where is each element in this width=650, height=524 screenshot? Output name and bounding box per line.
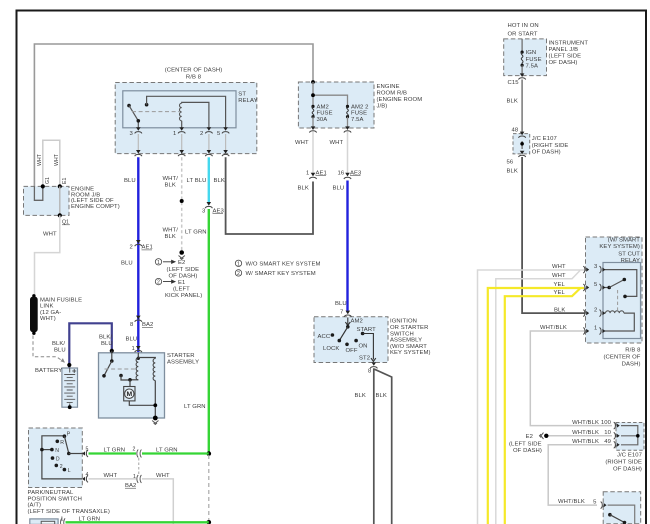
ST CUT pin 5 (583, 282, 605, 291)
svg-text:1: 1 (306, 170, 309, 176)
ST relay pin 5 (217, 127, 229, 137)
J/C pin 10 (572, 430, 620, 439)
svg-text:KEY SYSTEM): KEY SYSTEM) (599, 244, 640, 250)
wire YEL 2 merge (505, 289, 580, 524)
wire LT BLU relay pin2 (208, 157, 210, 204)
wire WHT AM2 down (312, 132, 314, 176)
svg-text:4: 4 (86, 472, 89, 478)
svg-text:(LEFT SIDE: (LEFT SIDE (509, 442, 542, 448)
main fusible link (12 GA-WHT) (30, 294, 82, 335)
svg-text:ENGINE: ENGINE (377, 84, 400, 90)
relay box bottom right (cut off) (603, 492, 641, 524)
svg-text:RELAY: RELAY (621, 258, 640, 264)
starter ground (152, 416, 158, 425)
wire BLK/BLU battery to starter (69, 323, 112, 368)
node E1 (58, 178, 68, 189)
svg-text:SWITCH: SWITCH (390, 331, 414, 337)
svg-text:(ENGINE ROOM: (ENGINE ROOM (377, 97, 423, 103)
svg-text:56: 56 (507, 160, 514, 166)
legend W/O smart key (235, 260, 320, 268)
wire START to ST2 (359, 334, 376, 362)
bottom relay switch (608, 513, 626, 524)
connector 2 AE1 (130, 240, 153, 251)
contact ACC (318, 333, 335, 340)
svg-text:IGN: IGN (526, 50, 537, 56)
J/C E107 top connector (519, 132, 526, 138)
svg-text:BLK: BLK (507, 99, 518, 105)
contact P (63, 432, 71, 439)
svg-text:WHT: WHT (295, 140, 309, 146)
svg-text:MAIN FUSIBLE: MAIN FUSIBLE (40, 298, 82, 304)
svg-text:BLU: BLU (124, 178, 136, 184)
dashed leader fusible link to battery (33, 336, 65, 363)
wire YEL 1 to pin 5 (488, 288, 584, 524)
svg-text:WHT: WHT (43, 232, 57, 238)
svg-text:PANEL J/B: PANEL J/B (549, 47, 579, 53)
J/C pin 100 (572, 420, 620, 429)
svg-text:BLK: BLK (165, 182, 176, 188)
ST relay pin 2 (200, 127, 212, 137)
park/neutral common rail (42, 436, 82, 479)
IGN fuse exit connector C15 (508, 73, 526, 86)
svg-text:D: D (56, 457, 60, 463)
engine room R/B box (298, 82, 422, 128)
svg-text:W/O SMART KEY SYSTEM: W/O SMART KEY SYSTEM (246, 262, 321, 268)
svg-text:ST2: ST2 (359, 356, 370, 362)
transaxle pin 1 connector (61, 516, 66, 524)
svg-text:P: P (67, 432, 71, 438)
svg-text:WHT/: WHT/ (163, 176, 179, 182)
wire WHT loop G1 to E1 (43, 140, 60, 186)
battery (35, 368, 78, 409)
svg-text:1: 1 (173, 131, 176, 137)
fuse IGN 7.5A (521, 39, 542, 76)
svg-text:J/B): J/B) (377, 104, 388, 110)
svg-text:BLU: BLU (121, 261, 133, 267)
ST CUT pin 1 (583, 325, 605, 334)
svg-text:WHT: WHT (37, 153, 43, 166)
svg-text:WHT: WHT (104, 473, 118, 479)
contact 2 (55, 464, 63, 470)
svg-text:WHT/BLK: WHT/BLK (558, 499, 585, 505)
svg-text:ON: ON (359, 343, 368, 349)
svg-text:BLK/: BLK/ (52, 341, 65, 347)
J/C pin 49 (572, 439, 620, 448)
svg-text:OR START: OR START (508, 32, 538, 38)
svg-text:ASSEMBLY: ASSEMBLY (390, 338, 422, 344)
svg-text:LOCK: LOCK (323, 346, 339, 352)
wire inside R/B (313, 82, 348, 106)
svg-text:LT GRN: LT GRN (184, 404, 206, 410)
svg-text:1: 1 (133, 474, 136, 480)
svg-text:WHT/: WHT/ (163, 228, 179, 234)
svg-text:7.5A: 7.5A (526, 64, 539, 70)
svg-text:ACC: ACC (318, 334, 331, 340)
svg-text:G1: G1 (45, 177, 51, 184)
connector 3 AE3 (202, 202, 225, 214)
wire BLK to ST CUT relay pin 2 (522, 157, 585, 313)
svg-text:LT GRN: LT GRN (79, 516, 101, 522)
legend W/ smart key (235, 270, 316, 278)
svg-text:1: 1 (157, 260, 160, 266)
svg-text:1: 1 (61, 516, 64, 522)
contact R (56, 440, 65, 446)
svg-text:LT GRN: LT GRN (156, 448, 178, 454)
svg-text:BLU: BLU (54, 347, 66, 353)
wire WHT Q1 to fusible link (35, 215, 60, 295)
svg-text:WHT/BLK: WHT/BLK (540, 325, 567, 331)
svg-text:BATTERY: BATTERY (35, 368, 62, 374)
svg-text:BLK: BLK (214, 178, 225, 184)
svg-text:OF DASH): OF DASH) (169, 274, 198, 280)
svg-text:W/ SMART KEY SYSTEM: W/ SMART KEY SYSTEM (246, 271, 316, 277)
connector tie dashes BA2 (138, 458, 140, 474)
svg-text:J/C E107: J/C E107 (617, 453, 642, 459)
rail tap to N (42, 449, 52, 451)
svg-text:WHT): WHT) (40, 316, 56, 322)
svg-text:OF DASH): OF DASH) (513, 448, 542, 454)
connector 2 BA2 (133, 447, 142, 458)
svg-text:AM2: AM2 (351, 318, 363, 324)
svg-text:M: M (126, 391, 132, 398)
starter pull-in coil (128, 353, 140, 382)
svg-text:POSITION SWITCH: POSITION SWITCH (28, 496, 83, 502)
wire LT GRN bottom (66, 521, 209, 523)
svg-text:E1: E1 (178, 280, 185, 286)
J/C E107 bottom connector (507, 151, 526, 166)
wire BLK relay pin5 to AE1 (226, 157, 313, 234)
svg-text:2: 2 (200, 131, 203, 137)
svg-text:(W/O SMART: (W/O SMART (390, 344, 427, 350)
svg-text:OF DASH): OF DASH) (549, 60, 578, 66)
starter solenoid switch (102, 349, 136, 380)
contact START (357, 327, 377, 335)
J/C E107 internal node (520, 141, 524, 149)
svg-text:WHT/BLK: WHT/BLK (572, 420, 599, 426)
J/C E107 lower box (605, 423, 644, 473)
node Q1 (58, 213, 70, 225)
note 2 E1 left kick panel (155, 278, 202, 298)
svg-text:BLU: BLU (333, 186, 345, 192)
ignition pin 8 connector (368, 362, 377, 374)
wire dashed option link down (208, 455, 210, 521)
svg-text:(LEFT SIDE: (LEFT SIDE (167, 267, 200, 273)
connector 1 AE1 (306, 170, 327, 179)
wire WHT 1 to pin 3 (478, 270, 585, 524)
ground E2 left side of dash (509, 433, 549, 454)
svg-text:BLK/: BLK/ (99, 335, 112, 341)
park pin 5 connector (82, 447, 88, 457)
wire LT GRN pin5 to connector (89, 452, 137, 454)
svg-text:C15: C15 (508, 80, 520, 86)
svg-text:WHT: WHT (330, 140, 344, 146)
bottom relay internal wire (608, 505, 635, 524)
fuse AM2 30A (311, 104, 332, 128)
svg-text:YEL: YEL (554, 290, 566, 296)
svg-text:5: 5 (86, 447, 89, 453)
park/neutral switch arm (64, 436, 68, 453)
starter motor M (124, 380, 158, 407)
svg-text:LT GRN: LT GRN (104, 448, 126, 454)
wire BLK ignition down A (373, 368, 375, 524)
svg-text:YEL: YEL (554, 282, 566, 288)
svg-text:STARTER: STARTER (167, 353, 195, 359)
transaxle component box bottom (30, 519, 58, 524)
svg-text:(W/ SMART: (W/ SMART (608, 238, 641, 244)
J/C E107 right side of dash top (512, 128, 569, 156)
svg-text:E1: E1 (62, 178, 68, 184)
svg-text:LINK: LINK (40, 304, 54, 310)
svg-text:BLU: BLU (101, 341, 113, 347)
svg-text:7: 7 (340, 310, 343, 316)
svg-text:HOT IN ON: HOT IN ON (508, 23, 539, 29)
J/C E107 internal bus (621, 426, 640, 445)
wire BLU AE3 to ignition AM2 (346, 181, 348, 313)
svg-text:BLU: BLU (335, 301, 347, 307)
wire BLK ignition down B (374, 369, 391, 524)
ST CUT relay box (w/ smart key system) (586, 237, 643, 368)
wire WHT/BLK pin 49 to relay box below (548, 445, 612, 505)
wire WHT pin4 to connector (89, 478, 137, 480)
svg-text:AM2: AM2 (317, 104, 329, 110)
wire WHT/BLK relay pin1 to ground (163, 157, 184, 250)
svg-text:ROOM R/B: ROOM R/B (377, 91, 408, 97)
R/B exit connector AM2 2 (344, 126, 351, 132)
park/neutral position switch box (28, 428, 110, 515)
svg-text:7.5A: 7.5A (351, 117, 364, 123)
fuse AM2 2 7.5A (346, 104, 369, 128)
ground E2/E1 (179, 250, 185, 259)
contact L (63, 468, 71, 474)
svg-text:BLK: BLK (554, 307, 565, 313)
svg-text:(A/T): (A/T) (28, 503, 42, 509)
wire LT GRN to junction (142, 452, 209, 454)
ignition or starter switch assembly box (314, 317, 431, 363)
svg-text:BLU: BLU (126, 337, 138, 343)
svg-text:RELAY: RELAY (238, 98, 257, 104)
contact ON (354, 339, 367, 349)
wire E1 to Q1 (59, 186, 61, 215)
ST CUT pin 3 (583, 264, 605, 273)
svg-text:LT BLU: LT BLU (187, 178, 207, 184)
bottom relay pin 5 (593, 500, 606, 509)
svg-text:(LEFT SIDE: (LEFT SIDE (549, 54, 582, 60)
svg-text:30A: 30A (317, 117, 328, 123)
svg-text:(CENTER OF: (CENTER OF (604, 355, 641, 361)
svg-text:2: 2 (133, 447, 136, 453)
ignition AM2 terminal (345, 318, 363, 329)
engine room J/B box (left side of engine compt) (24, 186, 120, 215)
ST relay pin 3 (130, 127, 142, 137)
ignition switch arm (339, 327, 348, 341)
svg-text:ENGINE COMPT): ENGINE COMPT) (71, 204, 120, 210)
svg-text:2: 2 (237, 271, 240, 277)
wire U inside engine room J/B (34, 186, 42, 200)
ignition pin 7 connector (340, 310, 351, 317)
svg-text:E2: E2 (178, 260, 185, 266)
instrument panel J/B IGN fuse box (504, 23, 589, 76)
svg-text:WHT: WHT (54, 153, 60, 166)
svg-text:R: R (60, 440, 64, 446)
svg-text:AM2 2: AM2 2 (351, 104, 369, 110)
svg-text:1: 1 (132, 346, 135, 352)
wire BLU relay pin3 to starter pin 1 (137, 157, 139, 352)
svg-text:(LEFT: (LEFT (173, 286, 190, 292)
connector 16 AE3 (338, 170, 363, 179)
svg-text:R/B 8: R/B 8 (186, 75, 202, 81)
contact D (51, 456, 60, 462)
svg-text:KICK PANEL): KICK PANEL) (165, 293, 202, 299)
svg-text:INSTRUMENT: INSTRUMENT (549, 41, 589, 47)
relay box exit connectors (135, 150, 142, 156)
svg-text:(RIGHT SIDE: (RIGHT SIDE (605, 460, 642, 466)
contact OFF (345, 343, 358, 354)
svg-text:WHT: WHT (552, 273, 566, 279)
svg-text:(CENTER OF DASH): (CENTER OF DASH) (165, 68, 223, 74)
svg-text:ASSEMBLY: ASSEMBLY (167, 359, 199, 365)
svg-text:LT GRN: LT GRN (185, 230, 207, 236)
svg-text:100: 100 (601, 420, 612, 426)
node G1 (41, 177, 51, 189)
node LT GRN junction (207, 451, 212, 456)
wire BLK C15 to J/C E107 (521, 80, 523, 133)
wire arm to pin 5 (69, 453, 83, 455)
svg-text:R/B 8: R/B 8 (625, 348, 641, 354)
svg-text:(12 GA-: (12 GA- (40, 310, 61, 316)
svg-text:2: 2 (130, 245, 133, 251)
wire WHT/BLK pin 1 to J/C E107 pin 100 (530, 331, 612, 426)
connector 1 BA2 (125, 474, 141, 489)
svg-text:FUSE: FUSE (351, 111, 367, 117)
wire WHT/BLK E2 ground to pin 10 (546, 435, 612, 437)
wire LT GRN down to park/neutral junction (208, 209, 210, 454)
svg-text:2: 2 (157, 280, 160, 286)
svg-text:ST CUT: ST CUT (618, 251, 640, 257)
ST relay pin 1 (173, 127, 185, 137)
svg-text:OR STARTER: OR STARTER (390, 325, 428, 331)
svg-text:IGNITION: IGNITION (390, 319, 417, 325)
svg-text:2: 2 (60, 464, 63, 470)
node R/B feed top (311, 80, 315, 84)
ST CUT pin 2 (583, 308, 605, 317)
svg-text:BLK: BLK (355, 393, 366, 399)
svg-text:J/C E107: J/C E107 (532, 136, 557, 142)
ST relay switch (127, 96, 225, 128)
svg-text:BLK: BLK (165, 234, 176, 240)
relay pigtail wires to dashed box edge (138, 134, 225, 151)
wire WHT feed from frame top to engine room R/B (34, 44, 313, 186)
svg-text:WHT: WHT (156, 473, 170, 479)
svg-text:2: 2 (594, 308, 597, 314)
ST relay coil (180, 102, 209, 127)
ST CUT relay coil (603, 311, 634, 331)
svg-text:OF DASH): OF DASH) (613, 467, 642, 473)
starter hold-in coil (138, 358, 155, 418)
svg-text:FUSE: FUSE (317, 111, 333, 117)
svg-text:OF DASH): OF DASH) (532, 150, 561, 156)
park pin 4 connector (82, 472, 88, 482)
connector 8 BA2 (130, 316, 153, 328)
svg-text:N: N (55, 448, 59, 454)
svg-text:16: 16 (338, 170, 345, 176)
svg-text:BLK: BLK (507, 169, 518, 175)
svg-text:FUSE: FUSE (526, 57, 542, 63)
svg-text:PARK/NEUTRAL: PARK/NEUTRAL (28, 490, 75, 496)
svg-text:WHT: WHT (552, 264, 566, 270)
svg-text:START: START (357, 327, 377, 333)
node bottom green junction (207, 520, 212, 524)
wire WHT 2 merge (496, 271, 580, 524)
R/B exit connector AM2 (309, 126, 316, 132)
svg-text:(LEFT SIDE OF TRANSAXLE): (LEFT SIDE OF TRANSAXLE) (28, 509, 110, 515)
contact LOCK (323, 339, 341, 352)
svg-text:OFF: OFF (346, 348, 358, 354)
svg-text:(RIGHT SIDE: (RIGHT SIDE (532, 143, 569, 149)
svg-text:1: 1 (237, 261, 240, 267)
svg-text:L: L (68, 468, 71, 474)
contact N (50, 448, 59, 454)
svg-text:BLK: BLK (376, 393, 387, 399)
svg-text:ST: ST (238, 91, 246, 97)
svg-text:BLK: BLK (298, 186, 309, 192)
svg-text:E2: E2 (526, 434, 533, 440)
svg-text:48: 48 (512, 128, 519, 134)
note 1 E2 left side of dash (155, 259, 199, 280)
ST relay R/B 8 (center of dash) (115, 68, 257, 154)
wire WHT AM2 2 down (347, 132, 349, 176)
ST CUT relay switch (603, 270, 637, 310)
svg-text:KEY SYSTEM): KEY SYSTEM) (390, 350, 431, 356)
svg-text:DASH): DASH) (622, 362, 641, 368)
wire WHT down (142, 479, 173, 524)
starter assembly box (99, 353, 200, 418)
starter pin 1 connector (135, 346, 142, 352)
svg-text:1: 1 (594, 325, 597, 331)
